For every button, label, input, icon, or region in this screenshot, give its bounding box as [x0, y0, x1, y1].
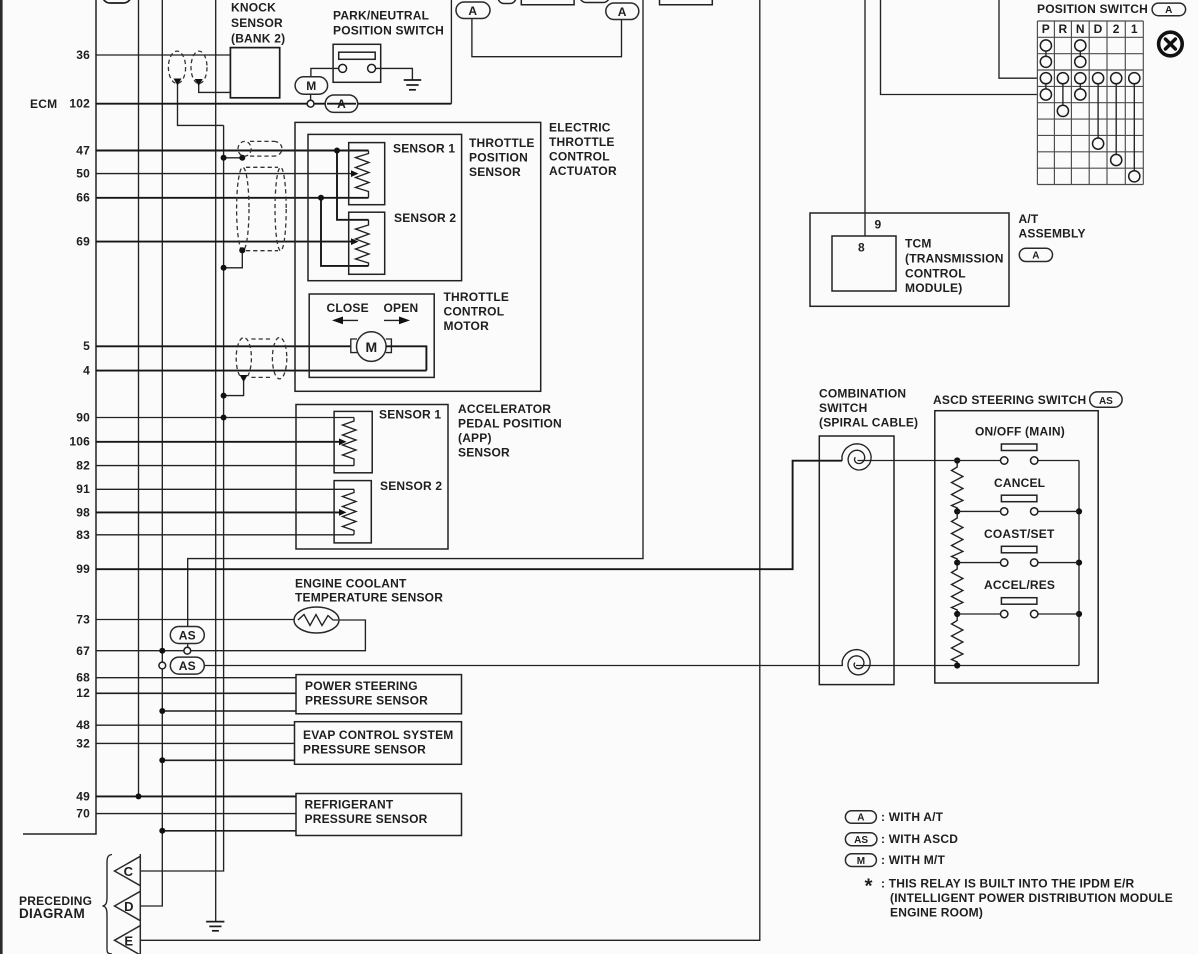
wire vertical to position switch row 3 [999, 0, 1037, 78]
wire from throttle actuator area down-left to AS connector 1 [188, 0, 643, 627]
svg-text:(APP): (APP) [458, 431, 492, 445]
knock sensor KS (bank 2) [230, 1, 285, 98]
cut-off connector oval top left [103, 0, 132, 3]
svg-text:83: 83 [76, 528, 90, 542]
svg-text:ELECTRIC: ELECTRIC [549, 121, 611, 135]
svg-text:CLOSE: CLOSE [327, 301, 369, 315]
svg-text:CANCEL: CANCEL [994, 476, 1045, 490]
svg-text:: WITH M/T: : WITH M/T [881, 853, 945, 867]
wire PNP left contact to M connector [311, 68, 339, 77]
svg-text:PRESSURE SENSOR: PRESSURE SENSOR [303, 743, 426, 757]
EVAP sensor ground wire [159, 757, 294, 763]
pin 47 wire [76, 144, 368, 158]
position switch contacts column D [1093, 73, 1104, 150]
ASCD resistor chain [952, 457, 963, 668]
wire ground bus vertical [215, 0, 217, 921]
pin 67 wire to coolant sensor [76, 620, 365, 658]
legend asterisk note [865, 875, 1173, 920]
position switch contacts column N [1075, 40, 1086, 100]
pin 102 wire (thick) [69, 97, 451, 111]
svg-text:1: 1 [1131, 22, 1138, 36]
wire vertical to position switch row 4 [881, 0, 1038, 95]
svg-text:9: 9 [875, 218, 882, 232]
ASCD right rail [1076, 461, 1082, 666]
svg-text:M: M [365, 339, 377, 355]
connector A top 2 [606, 3, 639, 20]
svg-text:M: M [306, 79, 316, 93]
svg-text:COAST/SET: COAST/SET [984, 527, 1055, 541]
cut-off connector oval top 3 [580, 0, 610, 3]
svg-text:47: 47 [76, 144, 90, 158]
APP sensor 1 potentiometer [334, 408, 441, 473]
engine coolant temperature sensor [294, 577, 443, 634]
pin 50 wire [76, 167, 358, 181]
svg-text:91: 91 [76, 482, 90, 496]
pin 4 wire [83, 364, 426, 378]
svg-text:KNOCK: KNOCK [231, 1, 276, 15]
svg-text:: WITH ASCD: : WITH ASCD [881, 832, 958, 846]
svg-text:67: 67 [76, 644, 90, 658]
svg-text:66: 66 [76, 191, 90, 205]
ON/OFF (MAIN) switch [858, 425, 1080, 465]
svg-text:POSITION SWITCH: POSITION SWITCH [333, 24, 444, 38]
svg-text:DIAGRAM: DIAGRAM [19, 906, 85, 921]
twisted pair shield (pins 5 4) [236, 338, 287, 379]
pin 82 wire [76, 459, 354, 473]
park/neutral position switch enclosure [450, 0, 452, 104]
cut-off relay box top 4 [660, 0, 713, 5]
svg-text:TCM: TCM [905, 237, 932, 251]
refrigerant sensor ground wire [159, 828, 296, 834]
wire PNP right contact to ground [376, 68, 413, 79]
svg-text:ENGINE COOLANT: ENGINE COOLANT [295, 577, 407, 591]
svg-text:ENGINE ROOM): ENGINE ROOM) [890, 906, 983, 920]
connector A (A/T assembly) [1019, 248, 1052, 261]
svg-text:49: 49 [76, 790, 90, 804]
svg-text:ACCELERATOR: ACCELERATOR [458, 402, 551, 416]
svg-text:THROTTLE: THROTTLE [549, 135, 615, 149]
connector AS 1 [170, 627, 204, 655]
svg-text:8: 8 [858, 241, 865, 255]
svg-text:A: A [618, 5, 627, 19]
pin 90 wire [76, 411, 354, 425]
connector E triangle [115, 926, 141, 954]
APP sensor 2 potentiometer [334, 479, 442, 543]
legend connector AS [845, 832, 958, 846]
svg-text:ACTUATOR: ACTUATOR [549, 164, 617, 178]
A/T assembly box [810, 212, 1086, 306]
svg-text:A: A [1165, 5, 1172, 16]
svg-text:SENSOR: SENSOR [231, 16, 283, 30]
connector C triangle [115, 856, 141, 885]
combination switch (spiral cable) box [819, 387, 918, 685]
knock sensor shield drain wires [174, 79, 231, 126]
svg-text:SENSOR 2: SENSOR 2 [380, 479, 442, 493]
spiral cable bottom [842, 650, 870, 675]
pin 47 branch to TPS sensor 2 [334, 148, 369, 220]
connector A top 1 [456, 2, 490, 19]
svg-text:POSITION SWITCH: POSITION SWITCH [1037, 2, 1148, 16]
svg-text:COMBINATION: COMBINATION [819, 387, 906, 401]
svg-text:73: 73 [76, 613, 90, 627]
shield drain (pins 5 4) [221, 375, 248, 399]
TPS sensor 2 potentiometer [349, 211, 457, 274]
svg-text:(SPIRAL CABLE): (SPIRAL CABLE) [819, 416, 918, 430]
svg-text:: WITH A/T: : WITH A/T [881, 810, 944, 824]
wire sensor-ground bus to connector D [141, 0, 162, 906]
svg-text:ASSEMBLY: ASSEMBLY [1019, 227, 1086, 241]
svg-text:A: A [468, 4, 477, 18]
pin 32 wire [76, 737, 294, 751]
svg-text:N: N [1076, 22, 1085, 36]
twisted pair shield (knock sensor) [168, 51, 207, 83]
svg-text:ECM: ECM [30, 97, 57, 111]
svg-text:CONTROL: CONTROL [549, 150, 610, 164]
preceding diagram brace [19, 855, 112, 954]
svg-text:AS: AS [854, 835, 868, 846]
pin 98 wire [76, 506, 346, 520]
pin 36 wire to knock sensor [76, 48, 230, 62]
connector A on pin 102 wire [325, 95, 358, 112]
position switch contacts column P [1040, 40, 1051, 100]
svg-text:E: E [124, 933, 133, 948]
svg-text:2: 2 [1113, 22, 1120, 36]
refrigerant pressure sensor [296, 794, 462, 836]
svg-text:70: 70 [76, 807, 90, 821]
svg-text:32: 32 [76, 737, 90, 751]
svg-text:ACCEL/RES: ACCEL/RES [984, 578, 1055, 592]
svg-text:C: C [124, 864, 134, 879]
svg-text:68: 68 [76, 671, 90, 685]
pin 69 wire [76, 235, 358, 249]
svg-text:102: 102 [69, 97, 90, 111]
svg-text:ASCD STEERING SWITCH: ASCD STEERING SWITCH [933, 393, 1086, 407]
ground (bottom) [206, 922, 224, 931]
svg-text:: THIS RELAY IS BUILT INTO THE: : THIS RELAY IS BUILT INTO THE IPDM E/R [881, 877, 1135, 891]
pin 49 wire [76, 790, 296, 804]
svg-text:98: 98 [76, 506, 90, 520]
cut-off connector oval top 2 [498, 0, 516, 4]
svg-text:99: 99 [76, 562, 90, 576]
spiral cable top [842, 444, 871, 470]
svg-text:SENSOR 1: SENSOR 1 [379, 408, 441, 422]
wire long vertical to connector E [141, 0, 760, 940]
shield drain (pins 50 66 69) [221, 247, 246, 271]
park/neutral position switch [333, 9, 444, 83]
throttle motor M1 [351, 332, 392, 362]
svg-text:SWITCH: SWITCH [819, 401, 868, 415]
pin 106 wire [69, 435, 346, 449]
position switch grid [1037, 21, 1143, 185]
pin 83 wire [76, 528, 354, 542]
pin 48 wire [76, 718, 294, 732]
svg-text:4: 4 [83, 364, 90, 378]
pin 99 wire to spiral cable [76, 461, 842, 576]
close / open arrows [327, 301, 419, 324]
wire vertical to TCM pin 9 [864, 0, 866, 236]
connector D triangle [115, 891, 141, 920]
legend connector A [845, 810, 943, 824]
svg-text:A/T: A/T [1019, 212, 1039, 226]
svg-text:POWER STEERING: POWER STEERING [305, 679, 418, 693]
svg-text:AS: AS [1099, 396, 1113, 407]
svg-text:POSITION: POSITION [469, 151, 528, 165]
svg-text:MODULE): MODULE) [905, 281, 962, 295]
svg-text:PEDAL POSITION: PEDAL POSITION [458, 417, 562, 431]
svg-text:AS: AS [179, 659, 196, 673]
svg-text:(TRANSMISSION: (TRANSMISSION [905, 252, 1004, 266]
svg-text:A: A [337, 97, 346, 111]
position switch label [1037, 2, 1148, 16]
pin 66 wire [76, 191, 368, 205]
svg-text:48: 48 [76, 718, 90, 732]
svg-text:A: A [857, 813, 864, 824]
twisted pair shield (pins 50 66 69) [237, 167, 287, 250]
ACCEL/RES switch [957, 578, 1079, 618]
connector AS (ASCD) [1090, 392, 1122, 407]
pin 12 wire [76, 686, 296, 700]
pin 66 branch to TPS sensor 2 [318, 195, 369, 266]
svg-text:AS: AS [179, 629, 196, 643]
wire shield bus vertical 1 [138, 0, 140, 796]
svg-text:SENSOR 2: SENSOR 2 [394, 211, 456, 225]
svg-text:12: 12 [76, 686, 90, 700]
svg-text:(BANK 2): (BANK 2) [231, 32, 285, 46]
svg-text:M: M [857, 856, 865, 867]
cut-off relay box top 1 [521, 0, 574, 5]
svg-text:82: 82 [76, 459, 90, 473]
svg-text:OPEN: OPEN [384, 301, 419, 315]
pin 91 wire [76, 482, 354, 496]
ASCD steering switch box [933, 393, 1098, 683]
position switch contacts column R [1057, 73, 1068, 117]
connector A (position switch) [1152, 3, 1186, 16]
svg-text:SENSOR 1: SENSOR 1 [393, 142, 455, 156]
pin 5 wire [83, 339, 351, 353]
svg-text:D: D [1094, 22, 1103, 36]
svg-text:MOTOR: MOTOR [444, 319, 490, 333]
accelerator pedal position sensor box [296, 402, 562, 549]
pin 70 wire [76, 807, 296, 821]
position switch contacts column 2 [1111, 73, 1122, 166]
svg-text:CONTROL: CONTROL [444, 305, 505, 319]
twisted pair shield (pin 47) [238, 141, 282, 156]
ground (park/neutral switch) [404, 80, 422, 90]
TCM (transmission control module) [832, 218, 1004, 296]
power steering sensor ground wire [159, 708, 296, 714]
pin 73 wire [76, 613, 295, 627]
svg-text:D: D [124, 899, 133, 914]
connector M [295, 77, 328, 94]
svg-text:(INTELLIGENT POWER DISTRIBUTIO: (INTELLIGENT POWER DISTRIBUTION MODULE [890, 891, 1173, 905]
svg-text:PRESSURE SENSOR: PRESSURE SENSOR [305, 694, 428, 708]
svg-text:CONTROL: CONTROL [905, 267, 966, 281]
connector AS 2 [159, 657, 204, 674]
svg-text:5: 5 [83, 339, 90, 353]
svg-text:PRESSURE SENSOR: PRESSURE SENSOR [305, 812, 428, 826]
svg-text:SENSOR: SENSOR [469, 165, 521, 179]
svg-text:R: R [1058, 22, 1067, 36]
TPS sensor 1 potentiometer [349, 142, 456, 205]
svg-text:36: 36 [76, 48, 90, 62]
svg-text:69: 69 [76, 235, 90, 249]
svg-text:90: 90 [76, 411, 90, 425]
svg-text:PARK/NEUTRAL: PARK/NEUTRAL [333, 9, 429, 23]
pin 68 wire [76, 671, 296, 685]
svg-text:REFRIGERANT: REFRIGERANT [305, 798, 394, 812]
svg-text:SENSOR: SENSOR [458, 446, 510, 460]
legend connector M [845, 853, 945, 867]
svg-text:ON/OFF (MAIN): ON/OFF (MAIN) [975, 425, 1065, 439]
svg-text:A: A [1032, 250, 1039, 261]
wire M to junction circle [307, 94, 314, 107]
ECM connector [23, 0, 96, 834]
svg-text:50: 50 [76, 167, 90, 181]
svg-text:EVAP CONTROL SYSTEM: EVAP CONTROL SYSTEM [303, 728, 454, 742]
pin 47 shield drain jog [221, 155, 246, 161]
svg-text:*: * [865, 875, 873, 898]
X circle marker [1159, 32, 1183, 56]
EVAP control system pressure sensor [295, 722, 462, 765]
wire shield drain bus to connector C [141, 125, 224, 871]
svg-text:106: 106 [69, 435, 90, 449]
svg-text:THROTTLE: THROTTLE [469, 136, 535, 150]
throttle position sensor box [308, 134, 535, 280]
electric throttle control actuator box [295, 121, 617, 392]
COAST/SET switch [957, 527, 1079, 566]
CANCEL switch [957, 476, 1079, 515]
svg-text:THROTTLE: THROTTLE [444, 290, 510, 304]
wire motor to pin 4 loop [386, 346, 426, 370]
wire between A connectors [472, 19, 622, 57]
position switch contacts column 1 [1129, 73, 1140, 182]
throttle control motor box [309, 290, 509, 377]
power steering pressure sensor [296, 675, 462, 714]
svg-text:P: P [1042, 22, 1050, 36]
connector AS 2 wire to ASCD [204, 665, 1079, 667]
svg-text:TEMPERATURE SENSOR: TEMPERATURE SENSOR [295, 591, 443, 605]
connector base line C D E [139, 854, 141, 954]
